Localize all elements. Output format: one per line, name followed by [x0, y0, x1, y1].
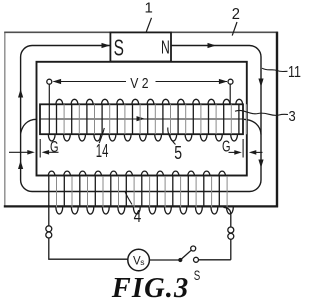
svg-text:S: S	[194, 268, 201, 283]
wire switch to right riser	[199, 259, 231, 261]
core bar 3 outline	[40, 104, 243, 134]
source Vs circle	[128, 249, 150, 271]
svg-text:14: 14	[96, 141, 109, 161]
winding 4 front wires	[49, 176, 220, 207]
V2 terminal right	[228, 79, 233, 84]
flux arrow left wall upper (up)	[18, 89, 23, 98]
flux arrow left wall lower (up)	[18, 161, 23, 170]
flux arrow right wall upper (down)	[258, 79, 263, 88]
label 11 leader	[262, 68, 288, 71]
housing 11 left wall	[4, 32, 6, 206]
svg-text:V 2: V 2	[130, 75, 148, 92]
flux arrow into S pole	[102, 43, 111, 48]
flux arrow inside core bar	[137, 116, 146, 121]
V2 arrowhead right	[219, 79, 228, 84]
housing 11 right wall	[276, 32, 278, 208]
winding 3 top loops	[56, 99, 243, 104]
label 5 leader	[168, 128, 176, 145]
label 1 leader	[146, 18, 151, 32]
right bushing lower	[228, 233, 234, 239]
svg-text:3: 3	[289, 108, 296, 125]
flux loop top-left segment with corner	[21, 46, 261, 192]
winding 4 bottom loops	[56, 207, 233, 214]
V2 arrowhead left	[53, 79, 62, 84]
winding 3 bottom loops	[48, 134, 237, 141]
winding 4 top loops	[48, 171, 225, 176]
right gap arrow outside-right	[252, 151, 263, 153]
inner pole frame	[37, 62, 247, 176]
left gap arrow outside-right	[45, 151, 59, 153]
svg-text:11: 11	[288, 64, 301, 81]
wire riser to winding4 right end	[224, 207, 231, 227]
right bushing upper	[228, 227, 234, 233]
svg-text:G: G	[222, 139, 231, 156]
housing 11 top wall	[4, 31, 277, 33]
label 4 leader	[125, 192, 132, 205]
left gap tick at core end	[39, 139, 41, 158]
magnet 1 body	[110, 32, 171, 61]
flux arc from left wall into core	[21, 119, 37, 133]
label 14 leader	[99, 128, 104, 143]
svg-text:N: N	[161, 36, 170, 57]
svg-text:G: G	[50, 139, 59, 156]
switch fixed contact circle	[194, 257, 199, 262]
svg-text:s: s	[140, 257, 144, 267]
left bushing upper	[46, 226, 52, 232]
flux arrow top-right from N pole	[208, 43, 217, 48]
switch blade contact circle	[191, 246, 196, 251]
housing 11 bottom wall	[4, 205, 278, 207]
winding 3 return wires	[64, 104, 246, 134]
right gap tick at core end	[242, 139, 244, 158]
winding 4 return wires	[57, 176, 228, 207]
V2 right lead wire	[229, 84, 231, 104]
flux arrow right wall lower (down)	[258, 160, 263, 169]
winding 3 front wires	[57, 104, 239, 134]
svg-text:FIG.3: FIG.3	[111, 273, 190, 304]
label 3 leader	[235, 110, 288, 115]
V2 dimension line right part	[156, 81, 228, 83]
svg-text:4: 4	[134, 206, 142, 226]
wire winding4 left terminal lead	[48, 205, 50, 226]
core bar center flux line	[40, 118, 243, 120]
left bushing lower	[46, 232, 52, 238]
switch pivot dot	[178, 258, 182, 262]
svg-text:S: S	[114, 34, 124, 60]
wire right riser	[230, 239, 232, 259]
label 2 leader	[232, 22, 237, 36]
wire left lead to bottom rail	[49, 238, 128, 259]
V2 dimension line left part	[54, 81, 127, 83]
flux arc from core to right wall	[244, 119, 261, 134]
V2 terminal left	[47, 79, 52, 84]
svg-text:5: 5	[174, 143, 182, 163]
right gap arrow outside-left	[229, 151, 239, 153]
V2 left lead wire	[48, 84, 50, 134]
svg-text:2: 2	[232, 6, 240, 23]
svg-text:1: 1	[145, 0, 153, 16]
wire Vs to switch	[149, 259, 180, 261]
switch blade	[180, 250, 191, 260]
left gap arrow outside-left	[9, 151, 31, 153]
